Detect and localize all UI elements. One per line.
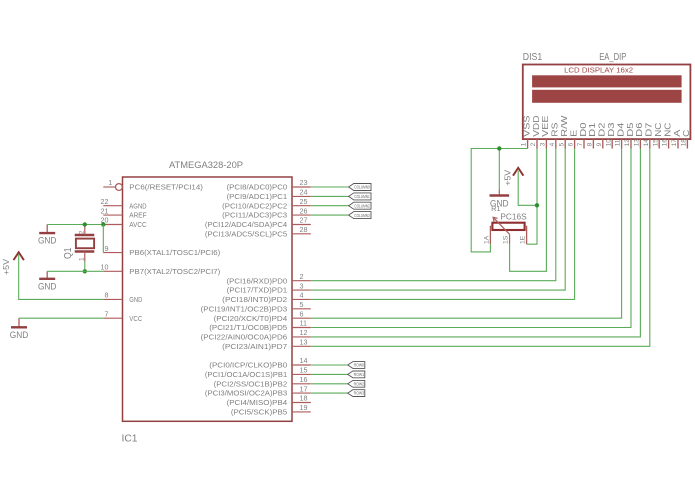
svg-text:22: 22 [101, 197, 109, 206]
junction VSS-GND4 [497, 146, 501, 150]
LCD glass row 2 [532, 90, 682, 103]
svg-text:COLUMN2: COLUMN2 [354, 203, 370, 208]
IC1 pin 1 PC6(/RESET/PCI14) [103, 186, 115, 188]
IC1 pin 14 (PCI0/ICP/CLKO)PB0 [292, 364, 311, 366]
wire R1 1S to LCD VEE pin3 [510, 149, 547, 272]
svg-text:(PCI20/XCK/T0)PD4: (PCI20/XCK/T0)PD4 [214, 314, 288, 323]
svg-text:6: 6 [300, 309, 304, 318]
svg-text:(PCI19/INT1/OC2B)PD3: (PCI19/INT1/OC2B)PD3 [201, 304, 288, 313]
junction crystal bottom [83, 269, 87, 273]
svg-text:(PCI11/ADC3)PC3: (PCI11/ADC3)PC3 [222, 211, 287, 220]
svg-text:GND: GND [129, 295, 142, 304]
LCD pin 13 D6 [639, 139, 641, 148]
svg-text:A: A [673, 129, 682, 137]
svg-text:(PCI13/ADC5/SCL)PC5: (PCI13/ADC5/SCL)PC5 [205, 229, 287, 238]
LCD pin 12 D5 [630, 139, 632, 148]
svg-text:AGND: AGND [129, 201, 146, 210]
wire PD net to LCD pin 6 E [311, 149, 575, 300]
ground GND4 (LCD VSS net) [498, 190, 500, 196]
svg-text:(PCI23/AIN1)PD7: (PCI23/AIN1)PD7 [222, 342, 287, 351]
svg-text:COLUMN0: COLUMN0 [354, 185, 370, 190]
IC1 pin 20 AVCC [103, 224, 122, 226]
svg-text:25: 25 [300, 197, 308, 206]
svg-text:D0: D0 [579, 122, 588, 137]
svg-text:15: 15 [300, 366, 308, 375]
svg-text:7: 7 [577, 142, 584, 146]
svg-text:8: 8 [587, 142, 594, 146]
svg-text:GND: GND [38, 236, 57, 247]
IC1 pin 27 (PCI12/ADC4/SDA)PC4 [292, 224, 311, 226]
wire PD net to LCD pin 4 RS [311, 149, 556, 281]
net flag ROW3 [348, 390, 365, 397]
wire +5V left to GND pin8 [19, 255, 104, 300]
IC1 pin 28 (PCI13/ADC5/SCL)PC5 [292, 233, 311, 235]
svg-text:(PCI5/SCK)PB5: (PCI5/SCK)PB5 [231, 408, 287, 417]
svg-text:17: 17 [671, 139, 678, 147]
R1 pin 1E [525, 226, 527, 244]
LCD pin 9 D2 [602, 139, 604, 148]
svg-text:27: 27 [300, 216, 308, 225]
svg-text:13: 13 [300, 338, 308, 347]
svg-text:4: 4 [300, 291, 304, 300]
wire VDD junction to LCD pin2 [536, 149, 538, 206]
svg-text:1A: 1A [483, 235, 490, 244]
svg-text:12: 12 [624, 139, 631, 147]
svg-text:+5V: +5V [502, 169, 512, 185]
net flag ROW0 [348, 362, 365, 369]
svg-text:NC: NC [663, 122, 672, 136]
svg-text:D1: D1 [588, 122, 597, 137]
LCD pin 10 D3 [611, 139, 613, 148]
wire PD net to LCD pin 13 D6 [311, 149, 641, 337]
svg-text:ATMEGA328-20P: ATMEGA328-20P [169, 160, 243, 171]
svg-text:28: 28 [300, 225, 308, 234]
svg-text:10: 10 [605, 139, 612, 147]
supply +5V right [513, 168, 523, 176]
IC1 pin 15 (PCI1/OC1A/OC1S)PB1 [292, 373, 311, 375]
svg-text:AVCC: AVCC [129, 220, 146, 229]
IC1 pin 7 VCC [103, 317, 122, 319]
svg-text:D7: D7 [645, 122, 654, 137]
IC1 pin 5 (PCI19/INT1/OC2B)PD3 [292, 308, 311, 310]
LCD pin 8 D1 [592, 139, 594, 148]
svg-text:PC6(/RESET/PCI14): PC6(/RESET/PCI14) [129, 183, 203, 192]
svg-text:16: 16 [300, 375, 308, 384]
IC1 pin 6 (PCI20/XCK/T0)PD4 [292, 317, 311, 319]
wire pin17 to net flag ROW3 [311, 392, 348, 394]
trimmer R1 PC16S body [492, 223, 524, 230]
R1 pin 1A [490, 226, 492, 244]
LCD pin 16 NC [668, 139, 670, 148]
junction VDD net [535, 203, 539, 207]
IC1 pin 2 (PCI16/RXD)PD0 [292, 280, 311, 282]
svg-text:5: 5 [558, 142, 565, 146]
svg-text:DIS1: DIS1 [523, 52, 542, 63]
wire pin23 to net flag COLUMN0 [311, 186, 349, 188]
LCD pin 4 RS [555, 139, 557, 148]
LCD pin 14 D7 [649, 139, 651, 148]
net flag COLUMN1 [349, 193, 371, 200]
wire GND3 to VCC pin7 [19, 317, 103, 319]
svg-text:1S: 1S [502, 235, 509, 244]
IC1 pin 13 (PCI23/AIN1)PD7 [292, 345, 311, 347]
svg-text:12: 12 [300, 328, 308, 337]
svg-text:(PCI21/T1/OC0B)PD5: (PCI21/T1/OC0B)PD5 [209, 323, 287, 332]
svg-text:(PCI16/RXD)PD0: (PCI16/RXD)PD0 [227, 276, 288, 285]
svg-text:2: 2 [300, 272, 304, 281]
wire LCD VSS pin1 to GND4 and R1 1A [471, 149, 527, 252]
svg-text:EA_DIP: EA_DIP [599, 52, 627, 63]
svg-text:(PCI3/MOSI/OC2A)PB3: (PCI3/MOSI/OC2A)PB3 [205, 389, 287, 398]
svg-text:ROW2: ROW2 [354, 381, 365, 386]
wire pin25 to net flag COLUMN2 [311, 205, 349, 207]
LCD module DIS1 EA_DIP body [523, 65, 691, 140]
crystal Q1 [75, 234, 95, 236]
wire crystal bottom to pin10 row [84, 262, 86, 272]
svg-text:17: 17 [300, 384, 308, 393]
svg-text:14: 14 [643, 139, 650, 147]
svg-text:R/W: R/W [560, 115, 569, 137]
LCD pin 3 VEE [545, 139, 547, 148]
LCD pin 6 E [574, 139, 576, 148]
svg-text:4: 4 [549, 142, 556, 146]
svg-text:(PCI12/ADC4/SDA)PC4: (PCI12/ADC4/SDA)PC4 [205, 220, 287, 229]
svg-text:23: 23 [300, 178, 308, 187]
wire GND4 lead [498, 149, 500, 190]
svg-text:(PCI18/INT0)PD2: (PCI18/INT0)PD2 [222, 295, 287, 304]
svg-text:Q1: Q1 [63, 247, 74, 259]
wire PD net to LCD pin 11 D4 [311, 149, 622, 319]
svg-text:PC16S: PC16S [500, 212, 526, 221]
LCD pin 15 NC [658, 139, 660, 148]
svg-text:R1: R1 [491, 204, 501, 213]
svg-text:VCC: VCC [129, 314, 142, 323]
svg-text:(PCI22/AIN0/OC0A)PD6: (PCI22/AIN0/OC0A)PD6 [201, 333, 288, 342]
wire VDD junction down to R1 1E [527, 205, 537, 244]
IC1 pin 3 (PCI17/TXD)PD1 [292, 289, 311, 291]
svg-text:GND: GND [38, 281, 57, 292]
svg-text:(PCI1/OC1A/OC1S)PB1: (PCI1/OC1A/OC1S)PB1 [205, 370, 287, 379]
junction at pin9 branch [101, 222, 105, 226]
svg-text:D5: D5 [626, 122, 635, 137]
wire PD net to LCD pin 14 D7 [311, 149, 650, 347]
svg-text:RS: RS [551, 123, 560, 137]
LCD pin 11 D4 [621, 139, 623, 148]
svg-text:1E: 1E [520, 235, 527, 244]
svg-text:AREF: AREF [129, 211, 147, 220]
IC1 pin 19 (PCI5/SCK)PB5 [292, 411, 311, 413]
svg-text:6: 6 [568, 142, 575, 146]
wire GND1 to AVCC pin20 [47, 224, 103, 226]
IC1 pin 17 (PCI3/MOSI/OC2A)PB3 [292, 392, 311, 394]
svg-text:18: 18 [681, 139, 688, 147]
svg-text:ROW1: ROW1 [354, 372, 365, 377]
svg-text:(PCI0/ICP/CLKO)PB0: (PCI0/ICP/CLKO)PB0 [209, 361, 287, 370]
LCD pin 5 R/W [564, 139, 566, 148]
svg-text:(PCI4/MISO)PB4: (PCI4/MISO)PB4 [227, 398, 288, 407]
svg-text:7: 7 [105, 309, 109, 318]
svg-text:D2: D2 [598, 122, 607, 137]
svg-text:5: 5 [300, 300, 304, 309]
net flag COLUMN3 [349, 212, 371, 219]
ground GND3 (VCC pin net) [18, 318, 20, 327]
svg-text:(PCI9/ADC1)PC1: (PCI9/ADC1)PC1 [227, 192, 288, 201]
svg-text:C: C [682, 129, 691, 136]
svg-text:14: 14 [300, 356, 308, 365]
wire pin15 to net flag ROW1 [311, 373, 348, 375]
wire GND2 to PB7 pin10 [47, 270, 103, 272]
svg-text:(PCI10/ADC2)PC2: (PCI10/ADC2)PC2 [222, 201, 287, 210]
svg-text:26: 26 [300, 206, 308, 215]
wire pin26 to net flag COLUMN3 [311, 214, 349, 216]
wire PD net to LCD pin 12 D5 [311, 149, 631, 328]
junction crystal top [83, 222, 87, 226]
svg-text:2: 2 [530, 142, 537, 146]
svg-text:VSS: VSS [522, 116, 531, 137]
svg-text:3: 3 [300, 281, 304, 290]
svg-text:1: 1 [79, 257, 86, 261]
IC1 pin 12 (PCI22/AIN0/OC0A)PD6 [292, 336, 311, 338]
wire PD net to LCD pin 5 R/W [311, 149, 565, 291]
ground GND1 (crystal top net) [46, 225, 48, 234]
svg-text:+5V: +5V [1, 259, 11, 275]
svg-text:D6: D6 [635, 122, 644, 137]
svg-text:19: 19 [300, 403, 308, 412]
LCD pin 1 VSS [527, 139, 529, 148]
svg-text:D3: D3 [607, 122, 616, 137]
IC1 pin 9 PB6(XTAL1/TOSC1/PCI6) [103, 252, 122, 254]
LCD pin 2 VDD [536, 139, 538, 148]
IC1 pin 8 GND [103, 298, 122, 300]
svg-text:NC: NC [654, 122, 663, 136]
svg-text:COLUMN1: COLUMN1 [354, 194, 370, 199]
IC1 pin 10 PB7(XTAL2/TOSC2/PCI7) [103, 270, 122, 272]
IC1 pin 18 (PCI4/MISO)PB4 [292, 402, 311, 404]
svg-text:9: 9 [105, 244, 109, 253]
svg-text:PB7(XTAL2/TOSC2/PCI7): PB7(XTAL2/TOSC2/PCI7) [129, 267, 220, 276]
svg-text:13: 13 [634, 139, 641, 147]
svg-text:8: 8 [105, 291, 109, 300]
net flag ROW2 [348, 380, 365, 387]
svg-text:10: 10 [101, 263, 109, 272]
svg-text:18: 18 [300, 394, 308, 403]
net flag COLUMN2 [349, 202, 371, 209]
svg-text:VDD: VDD [532, 115, 541, 137]
svg-text:2: 2 [79, 230, 86, 234]
svg-text:LCD DISPLAY 16x2: LCD DISPLAY 16x2 [564, 66, 633, 75]
IC1 pin 11 (PCI21/T1/OC0B)PD5 [292, 327, 311, 329]
svg-text:(PCI8/ADC0)PC0: (PCI8/ADC0)PC0 [227, 183, 288, 192]
svg-text:11: 11 [300, 319, 307, 328]
IC1 pin 21 AREF [103, 214, 122, 216]
wire pin16 to net flag ROW2 [311, 383, 348, 385]
wire pin24 to net flag COLUMN1 [311, 195, 349, 197]
LCD glass row 1 [532, 75, 682, 87]
svg-text:IC1: IC1 [122, 432, 138, 444]
LCD pin 7 D0 [583, 139, 585, 148]
svg-text:3: 3 [540, 142, 547, 146]
svg-text:11: 11 [615, 139, 622, 146]
LCD pin 17 A [677, 139, 679, 148]
wire pin14 to net flag ROW0 [311, 364, 348, 366]
IC U1 ATMEGA328-20P body IC1 [123, 177, 293, 421]
svg-text:9: 9 [596, 142, 603, 146]
svg-text:E: E [569, 130, 578, 137]
IC1 pin 23 (PCI8/ADC0)PC0 [292, 186, 311, 188]
svg-text:COLUMN3: COLUMN3 [354, 213, 370, 218]
svg-text:16: 16 [662, 139, 669, 147]
net flag ROW1 [348, 371, 365, 378]
IC1 pin 4 (PCI18/INT0)PD2 [292, 298, 311, 300]
svg-text:PB6(XTAL1/TOSC1/PCI6): PB6(XTAL1/TOSC1/PCI6) [129, 248, 220, 257]
IC1 pin 24 (PCI9/ADC1)PC1 [292, 195, 311, 197]
R1 pin 1S [509, 234, 511, 244]
net flag COLUMN0 [349, 184, 371, 191]
supply +5V left [14, 252, 24, 260]
svg-text:21: 21 [101, 206, 109, 215]
wire +5V right shaft [518, 171, 537, 206]
svg-text:1: 1 [521, 142, 528, 146]
svg-text:ROW0: ROW0 [354, 363, 365, 368]
svg-text:D4: D4 [616, 122, 625, 137]
svg-text:VEE: VEE [541, 116, 550, 137]
svg-text:ROW3: ROW3 [354, 391, 365, 396]
svg-text:GND: GND [10, 330, 29, 341]
svg-text:15: 15 [652, 139, 659, 147]
IC1 pin 22 AGND [103, 205, 122, 207]
svg-text:(PCI2/SS/OC1B)PB2: (PCI2/SS/OC1B)PB2 [214, 379, 288, 388]
LCD pin 18 C [686, 139, 688, 148]
wire branch to pin9 XTAL1 [102, 225, 104, 253]
ground GND2 (crystal bottom net) [46, 271, 48, 279]
IC1 pin 16 (PCI2/SS/OC1B)PB2 [292, 383, 311, 385]
IC1 pin 26 (PCI11/ADC3)PC3 [292, 214, 311, 216]
IC1 pin 25 (PCI10/ADC2)PC2 [292, 205, 311, 207]
svg-text:24: 24 [300, 188, 308, 197]
svg-text:(PCI17/TXD)PD1: (PCI17/TXD)PD1 [227, 286, 288, 295]
svg-text:1: 1 [108, 178, 112, 187]
